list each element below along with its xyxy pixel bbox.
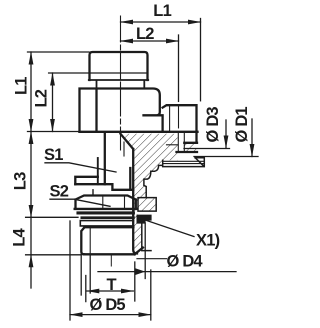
side seal washer strip xyxy=(163,161,205,163)
washer edge above locknut xyxy=(92,190,94,196)
locknut section block xyxy=(138,198,156,212)
stud edge extension xyxy=(80,253,82,295)
section end face line xyxy=(137,258,167,260)
stud upper thread edge xyxy=(97,158,99,184)
svg-text:S1: S1 xyxy=(44,146,63,164)
side stud thread end line xyxy=(178,106,180,128)
seal band 1 xyxy=(78,211,133,214)
collar ring above locknut xyxy=(75,177,98,184)
dim D4 leader xyxy=(98,271,236,273)
dim D5 bottom xyxy=(70,314,151,316)
top nut hex outline xyxy=(90,52,148,80)
locknut hex flats xyxy=(103,196,125,208)
svg-text:S2: S2 xyxy=(50,183,69,201)
svg-text:L4: L4 xyxy=(11,228,29,247)
hatched chamfer triangle at stud bottom right xyxy=(135,248,143,255)
dim L3 left xyxy=(30,132,32,218)
svg-text:L1: L1 xyxy=(12,77,30,95)
stud bottom right chamfer xyxy=(135,248,143,255)
D1 arrow xyxy=(251,119,253,157)
svg-text:Ø D4: Ø D4 xyxy=(167,253,204,271)
nut washer-face trapezoid xyxy=(89,80,148,89)
svg-text:T: T xyxy=(107,276,117,294)
retaining washer xyxy=(80,221,133,226)
S1 leader xyxy=(45,163,116,172)
svg-text:L3: L3 xyxy=(12,172,30,190)
svg-text:L2: L2 xyxy=(32,89,50,107)
body / stud bottom line xyxy=(80,131,198,133)
locknut S2 outline xyxy=(76,196,136,209)
svg-text:Ø D3: Ø D3 xyxy=(204,107,222,143)
stud left chamfer + edge xyxy=(81,227,84,254)
neck chamfer diagonal xyxy=(121,134,134,149)
axis extension line left xyxy=(28,131,80,133)
dim L2 top xyxy=(121,40,179,42)
collar ledges xyxy=(75,168,133,190)
vertical centerline lower stub xyxy=(110,255,112,266)
side stud hex flat xyxy=(169,106,171,131)
thread minor extension xyxy=(89,256,91,293)
dim T bottom xyxy=(87,290,134,292)
dim L4 left (outside arrows) xyxy=(30,217,32,255)
stud thread minor line xyxy=(89,227,91,254)
D3 arrow xyxy=(225,120,227,148)
side stud thread minor line in section xyxy=(167,144,179,146)
X1 leader xyxy=(145,220,194,237)
section column left edge xyxy=(133,149,137,254)
side stud outline xyxy=(163,105,197,132)
svg-text:L1: L1 xyxy=(153,2,171,20)
svg-text:Ø D5: Ø D5 xyxy=(90,296,126,314)
svg-text:X1): X1) xyxy=(196,232,220,250)
svg-text:Ø D1: Ø D1 xyxy=(233,107,251,143)
stud bottom xyxy=(84,253,135,255)
nut chamfer line xyxy=(90,72,148,74)
S2 leader xyxy=(50,199,110,206)
neck below body xyxy=(104,133,106,184)
hatched pilot bottom right xyxy=(184,143,196,152)
seal section dark block xyxy=(137,215,151,223)
dim L1 top xyxy=(121,21,201,23)
neck thread line xyxy=(123,142,125,156)
dim L1 left xyxy=(30,52,32,132)
dim L2 left xyxy=(52,73,54,132)
body outline xyxy=(80,89,163,132)
section column right edge lower xyxy=(142,223,151,251)
body hex flat line xyxy=(95,90,97,131)
side pilot xyxy=(178,133,184,152)
scalloped profile right boundary xyxy=(144,160,163,197)
seal band 2 xyxy=(82,216,134,219)
svg-text:L2: L2 xyxy=(136,25,154,43)
stud top edge xyxy=(85,226,134,228)
hatched boot section under body xyxy=(121,134,178,254)
vertical centerline upper xyxy=(120,16,122,150)
